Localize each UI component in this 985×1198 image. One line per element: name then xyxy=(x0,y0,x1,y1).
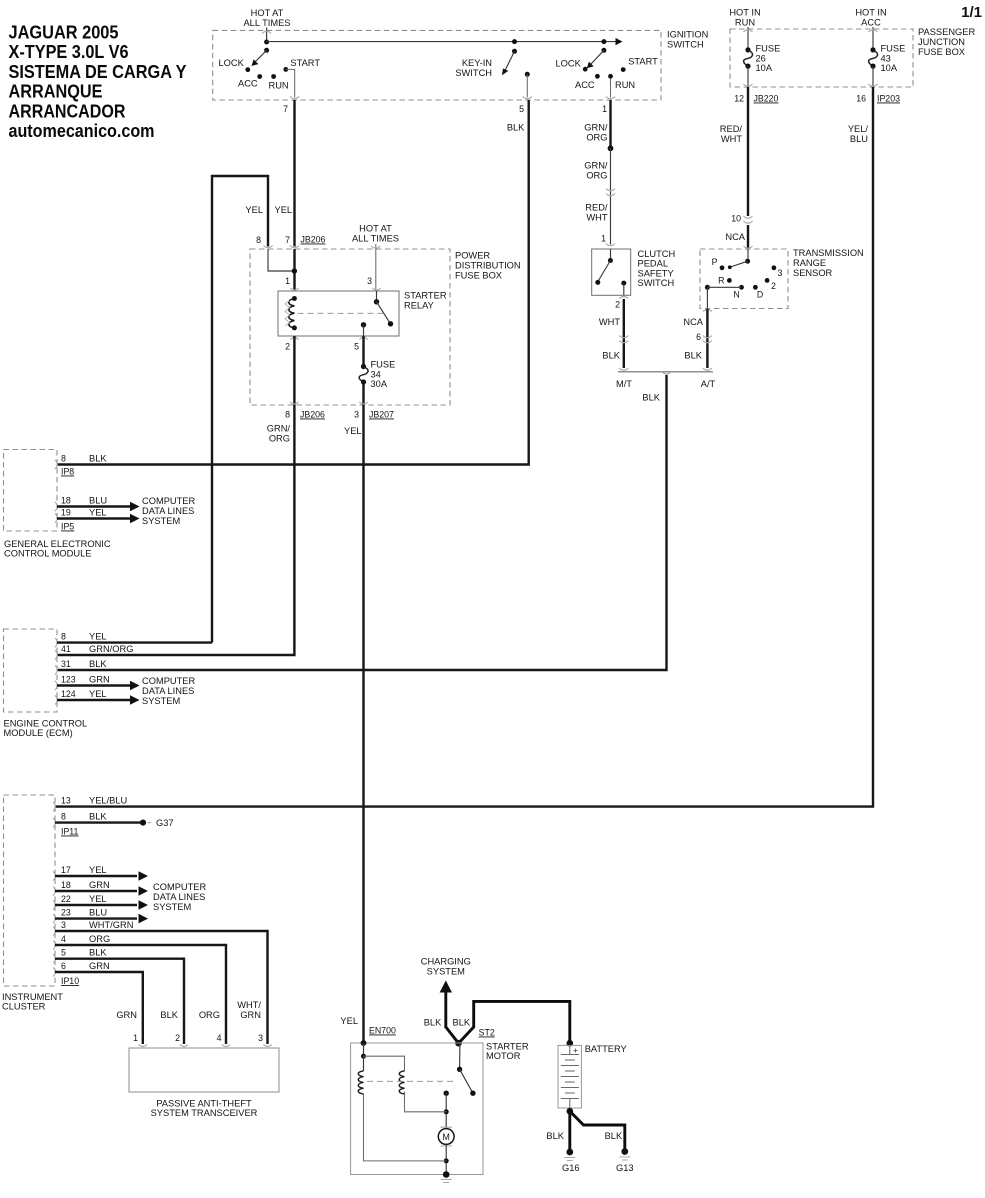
relay switch common xyxy=(374,299,379,304)
svg-text:P: P xyxy=(712,257,718,267)
svg-text:3: 3 xyxy=(354,410,359,420)
wire splice to clutch switch xyxy=(610,148,612,244)
contact N xyxy=(739,285,744,290)
svg-text:18: 18 xyxy=(61,496,71,506)
wire BLK to ground G37 xyxy=(55,821,140,823)
svg-text:IP203: IP203 xyxy=(877,94,900,104)
wire ignition internal bus xyxy=(267,41,617,43)
svg-text:ORG: ORG xyxy=(269,434,290,444)
svg-text:SISTEMA DE CARGA Y: SISTEMA DE CARGA Y xyxy=(9,61,188,82)
svg-text:1: 1 xyxy=(285,276,290,286)
key-in switch pivot on bus xyxy=(512,39,517,44)
svg-text:SWITCH: SWITCH xyxy=(455,68,492,78)
svg-text:RANGE: RANGE xyxy=(793,258,826,268)
connector arc TRS bottom xyxy=(703,310,712,312)
left rotary pivot xyxy=(264,48,269,53)
svg-text:EN700: EN700 xyxy=(369,1026,396,1036)
svg-text:31: 31 xyxy=(61,659,71,669)
svg-text:COMPUTER: COMPUTER xyxy=(153,882,206,892)
connector arcs at PDFB top pins 8 and 7 xyxy=(263,246,299,248)
svg-text:MOTOR: MOTOR xyxy=(486,1051,521,1061)
connector arc IC pin13 xyxy=(53,802,55,811)
svg-text:7: 7 xyxy=(283,104,288,114)
svg-text:GRN/: GRN/ xyxy=(584,123,608,133)
wire into TRS common xyxy=(747,249,749,261)
svg-text:BLK: BLK xyxy=(89,659,107,669)
svg-text:COMPUTER: COMPUTER xyxy=(142,676,195,686)
data line arrow pin17 xyxy=(55,875,137,877)
svg-text:ALL TIMES: ALL TIMES xyxy=(243,18,290,28)
svg-text:YEL/: YEL/ xyxy=(848,124,869,134)
motor M xyxy=(438,1129,454,1145)
node solenoid split xyxy=(361,1054,366,1059)
wire coil 2 return xyxy=(405,1092,447,1112)
starter switch output contact xyxy=(444,1091,449,1096)
svg-text:N: N xyxy=(733,290,739,300)
wire feed into fuse 26 xyxy=(747,27,749,50)
node YEL entry xyxy=(361,1040,367,1046)
contact START (left) xyxy=(283,67,288,72)
M/T A/T junction bar xyxy=(618,368,713,374)
fuse 26 xyxy=(744,44,781,74)
wire relay pin2 to JB206 bottom xyxy=(293,336,295,405)
svg-text:RED/: RED/ xyxy=(585,203,608,213)
svg-text:ALL TIMES: ALL TIMES xyxy=(352,234,399,244)
svg-text:2: 2 xyxy=(615,300,620,310)
svg-text:RELAY: RELAY xyxy=(404,301,434,311)
svg-text:BLK: BLK xyxy=(642,393,660,403)
wire contact to motor xyxy=(445,1093,447,1128)
svg-text:BLK: BLK xyxy=(602,351,620,361)
wire charging branch V left xyxy=(446,1027,459,1043)
svg-text:BLK: BLK xyxy=(160,1010,178,1020)
wire contact to pin 2 xyxy=(623,283,625,295)
clutch lever end xyxy=(595,280,600,285)
svg-text:ACC: ACC xyxy=(861,18,881,28)
svg-text:6: 6 xyxy=(696,332,701,342)
wire ST2 to starter switch xyxy=(459,1043,461,1069)
svg-text:BLK: BLK xyxy=(89,454,107,464)
svg-text:JB206: JB206 xyxy=(300,410,325,420)
wire fuse 43 to pin 16 xyxy=(872,66,874,87)
svg-text:STARTER: STARTER xyxy=(486,1042,529,1052)
svg-text:SYSTEM: SYSTEM xyxy=(142,696,180,706)
svg-text:26: 26 xyxy=(756,53,766,63)
svg-text:HOT AT: HOT AT xyxy=(359,224,392,234)
svg-text:CLUSTER: CLUSTER xyxy=(2,1002,46,1012)
svg-text:ENGINE CONTROL: ENGINE CONTROL xyxy=(4,719,88,729)
svg-text:JB206: JB206 xyxy=(301,235,326,245)
contact key-in output xyxy=(525,72,530,77)
node battery positive xyxy=(567,1040,574,1047)
wire entry to solenoid split xyxy=(363,1043,365,1056)
wire START contact to pin 7 xyxy=(286,69,295,97)
svg-text:G13: G13 xyxy=(616,1163,634,1173)
svg-text:KEY-IN: KEY-IN xyxy=(462,58,492,68)
svg-text:YEL: YEL xyxy=(89,632,107,642)
svg-text:WHT/GRN: WHT/GRN xyxy=(89,920,133,930)
connector arc ignition pin 1 xyxy=(606,97,615,99)
clutch switch pivot xyxy=(608,258,613,263)
data line arrow pin18 xyxy=(57,505,131,507)
svg-text:START: START xyxy=(290,58,320,68)
svg-text:18: 18 xyxy=(61,880,71,890)
svg-text:123: 123 xyxy=(61,675,76,685)
connector arc clutch switch pin1 xyxy=(606,244,615,246)
starter relay box xyxy=(278,291,399,336)
svg-text:BLU: BLU xyxy=(89,908,107,918)
connector arc ECM pin31 xyxy=(55,665,57,674)
wire JB206 pin8 jog to relay pin1 xyxy=(268,249,293,271)
svg-text:FUSE BOX: FUSE BOX xyxy=(455,271,502,281)
svg-text:JAGUAR 2005: JAGUAR 2005 xyxy=(9,22,119,43)
svg-text:12: 12 xyxy=(734,94,744,104)
svg-text:8: 8 xyxy=(61,454,66,464)
svg-text:8: 8 xyxy=(285,410,290,420)
connector arcs at relay pins 2,5 xyxy=(290,338,368,340)
svg-text:BLK: BLK xyxy=(424,1018,442,1028)
node coil2 return junction xyxy=(444,1109,449,1114)
wire ignition pin7 down to JB206 xyxy=(293,100,295,247)
svg-text:YEL: YEL xyxy=(275,205,293,215)
svg-text:MODULE (ECM): MODULE (ECM) xyxy=(4,728,73,738)
starter switch common xyxy=(457,1067,462,1072)
contact RUN (left) xyxy=(271,74,276,79)
svg-text:STARTER: STARTER xyxy=(404,291,447,301)
connector arcs at motor terminals xyxy=(441,1127,453,1146)
title block xyxy=(9,22,188,141)
connector arc PJB pin 12 xyxy=(743,84,752,86)
junction node pins 8+7 xyxy=(292,268,297,273)
wire WHT/BLK clutch to M/T junction xyxy=(623,299,625,368)
fuse 43 xyxy=(869,44,906,74)
battery box xyxy=(558,1045,581,1108)
contact ACC (right) xyxy=(595,74,600,79)
svg-text:X-TYPE 3.0L V6: X-TYPE 3.0L V6 xyxy=(9,41,129,62)
YEL branch wire from ECM row up-left xyxy=(212,176,268,643)
svg-text:16: 16 xyxy=(856,94,866,104)
contact D xyxy=(753,285,758,290)
wire NCA/BLK TRS to A/T junction xyxy=(706,309,708,368)
svg-text:RED/: RED/ xyxy=(720,124,743,134)
arrowhead of internal bus xyxy=(616,38,623,45)
svg-text:LOCK: LOCK xyxy=(219,58,245,68)
starter motor box xyxy=(351,1043,483,1175)
wire relay pin5 to fuse 34 xyxy=(362,336,364,367)
relay actuation dashed line xyxy=(298,312,384,314)
svg-text:13: 13 xyxy=(61,796,71,806)
contact LOCK (right) xyxy=(583,67,588,72)
wire YEL ECM pin8 row xyxy=(57,641,212,643)
svg-text:BLK: BLK xyxy=(684,351,702,361)
wire YEL JB207 down to starter motor xyxy=(362,405,364,1043)
svg-text:WHT: WHT xyxy=(599,317,620,327)
connector arcs at relay pins 1,3 xyxy=(290,288,380,290)
svg-text:IP8: IP8 xyxy=(61,467,74,477)
connector arc ECM pin8 xyxy=(55,638,57,647)
power distribution fuse box xyxy=(250,249,450,405)
svg-text:IP5: IP5 xyxy=(61,522,74,532)
svg-text:SYSTEM: SYSTEM xyxy=(427,967,465,977)
svg-text:23: 23 xyxy=(61,908,71,918)
wire contact to relay pin5 xyxy=(363,325,365,336)
svg-text:CHARGING: CHARGING xyxy=(421,957,471,967)
svg-text:WHT/: WHT/ xyxy=(237,1000,261,1010)
svg-text:DATA LINES: DATA LINES xyxy=(142,686,194,696)
svg-text:START: START xyxy=(628,57,658,67)
svg-text:RUN: RUN xyxy=(269,80,289,90)
solenoid actuation dashed line xyxy=(367,1080,455,1082)
svg-text:8: 8 xyxy=(61,632,66,642)
data line arrow pin23 xyxy=(55,917,137,919)
svg-text:GRN/: GRN/ xyxy=(267,424,291,434)
svg-text:G16: G16 xyxy=(562,1163,580,1173)
svg-text:BLK: BLK xyxy=(507,123,525,133)
clutch switch lever xyxy=(599,261,611,281)
svg-text:GRN: GRN xyxy=(89,880,110,890)
svg-text:FUSE: FUSE xyxy=(756,44,781,54)
ignition switch box xyxy=(213,30,661,100)
svg-text:YEL: YEL xyxy=(245,205,263,215)
svg-text:1: 1 xyxy=(601,234,606,244)
svg-text:PASSIVE ANTI-THEFT: PASSIVE ANTI-THEFT xyxy=(156,1099,252,1109)
wire fuse 26 to pin 12 xyxy=(747,66,749,87)
svg-text:3: 3 xyxy=(61,920,66,930)
battery internals xyxy=(561,1045,579,1108)
contact START (right) xyxy=(621,67,626,72)
svg-text:10A: 10A xyxy=(881,63,898,73)
svg-text:ACC: ACC xyxy=(238,79,258,89)
svg-text:GRN: GRN xyxy=(89,675,110,685)
ground node at starter case xyxy=(443,1171,450,1178)
wire relay pin3 to common xyxy=(376,291,378,302)
ground G37 xyxy=(140,820,146,826)
wire RUN contact to pin 1 xyxy=(610,79,612,98)
svg-text:GRN/ORG: GRN/ORG xyxy=(89,644,133,654)
connector arcs at PATS pins xyxy=(139,1045,272,1047)
svg-text:124: 124 xyxy=(61,689,76,699)
wire YEL/BLU from IP203 down and left to cluster pin13 xyxy=(55,87,873,807)
ground symbol starter xyxy=(441,1180,452,1183)
solenoid coil 2 xyxy=(399,1071,404,1094)
svg-text:WHT: WHT xyxy=(586,213,607,223)
svg-text:3: 3 xyxy=(258,1033,263,1043)
svg-text:WHT: WHT xyxy=(721,134,742,144)
wire ORG to PATS pin4 xyxy=(55,945,226,1044)
svg-text:JB207: JB207 xyxy=(369,410,394,420)
svg-text:BLU: BLU xyxy=(89,496,107,506)
wire ignition pin5 BLK down and left to GECM pin8 xyxy=(57,100,529,465)
svg-text:D: D xyxy=(757,290,763,300)
svg-text:19: 19 xyxy=(61,508,71,518)
svg-text:YEL: YEL xyxy=(89,689,107,699)
connector arc GECM pin8 xyxy=(55,460,57,469)
svg-text:ARRANQUE: ARRANQUE xyxy=(9,81,103,102)
general electronic control module box xyxy=(4,450,58,532)
inline connector on pin1 wire xyxy=(606,189,615,196)
wire BLK to PATS pin2 xyxy=(55,959,184,1044)
svg-text:YEL: YEL xyxy=(89,865,107,875)
connector arc clutch pin 2 xyxy=(619,297,628,299)
svg-text:COMPUTER: COMPUTER xyxy=(142,496,195,506)
svg-text:SWITCH: SWITCH xyxy=(667,40,704,50)
contact 2 xyxy=(765,278,770,283)
svg-text:5: 5 xyxy=(354,342,359,352)
wire ignition pin1 GRN/ORG xyxy=(609,100,611,148)
wire into coil 1 xyxy=(363,1056,365,1071)
svg-text:M/T: M/T xyxy=(616,379,632,389)
svg-text:PEDAL: PEDAL xyxy=(638,259,669,269)
svg-text:YEL/BLU: YEL/BLU xyxy=(89,796,127,806)
svg-text:ORG: ORG xyxy=(586,133,607,143)
node coil1 return junction xyxy=(444,1158,449,1163)
contact P xyxy=(720,265,725,270)
svg-text:8: 8 xyxy=(256,235,261,245)
svg-text:3: 3 xyxy=(367,276,372,286)
node ignition common xyxy=(264,40,269,45)
node battery negative xyxy=(567,1108,574,1115)
contact RUN (right) xyxy=(608,74,613,79)
right rotary pivot on bus xyxy=(601,39,606,44)
passive anti-theft system transceiver box xyxy=(129,1048,279,1092)
inline connector on TRS wire xyxy=(703,336,712,343)
svg-text:IGNITION: IGNITION xyxy=(667,30,708,40)
svg-text:JB220: JB220 xyxy=(754,94,779,104)
svg-text:YEL: YEL xyxy=(344,426,362,436)
contact ACC (left) xyxy=(257,74,262,79)
transmission range sensor box xyxy=(700,249,788,309)
svg-text:10A: 10A xyxy=(756,63,773,73)
svg-text:TRANSMISSION: TRANSMISSION xyxy=(793,248,864,258)
svg-text:3: 3 xyxy=(778,268,783,278)
svg-text:R: R xyxy=(718,276,724,286)
svg-text:4: 4 xyxy=(61,934,66,944)
node ST2 xyxy=(455,1040,462,1047)
inline connector on clutch wire xyxy=(619,336,628,343)
wire split to coil 2 xyxy=(364,1056,405,1071)
data line arrow pin124 xyxy=(57,699,131,701)
svg-text:GRN: GRN xyxy=(240,1010,261,1020)
svg-text:NCA: NCA xyxy=(683,317,703,327)
engine control module box xyxy=(4,629,58,712)
connector arc ECM pin41 xyxy=(55,650,57,659)
right rotary wiper (to LOCK) xyxy=(591,50,604,64)
svg-text:GRN/: GRN/ xyxy=(584,161,608,171)
svg-text:41: 41 xyxy=(61,644,71,654)
clutch pedal safety switch box xyxy=(592,249,631,295)
svg-text:INSTRUMENT: INSTRUMENT xyxy=(2,992,63,1002)
svg-text:2: 2 xyxy=(285,342,290,352)
svg-text:SWITCH: SWITCH xyxy=(638,278,675,288)
ground G16 xyxy=(566,1149,573,1156)
wire to charging system with arrowhead xyxy=(444,990,447,1028)
passenger junction fuse box xyxy=(730,29,913,87)
svg-text:IP10: IP10 xyxy=(61,976,79,986)
svg-text:YEL: YEL xyxy=(89,894,107,904)
svg-text:GRN: GRN xyxy=(89,961,110,971)
svg-text:RUN: RUN xyxy=(735,18,755,28)
svg-text:2: 2 xyxy=(771,281,776,291)
svg-text:YEL: YEL xyxy=(340,1016,358,1026)
wire TRS output down xyxy=(706,287,708,308)
svg-text:43: 43 xyxy=(881,53,891,63)
svg-text:7: 7 xyxy=(285,235,290,245)
svg-text:5: 5 xyxy=(519,104,524,114)
svg-text:BLK: BLK xyxy=(546,1131,564,1141)
TRS output node xyxy=(705,285,710,290)
connector arc PJB pin 16 xyxy=(868,84,877,86)
contact R xyxy=(727,278,732,283)
svg-text:BLK: BLK xyxy=(89,812,107,822)
svg-text:JUNCTION: JUNCTION xyxy=(918,37,965,47)
svg-text:ORG: ORG xyxy=(199,1010,220,1020)
svg-text:POWER: POWER xyxy=(455,251,490,261)
svg-text:BLK: BLK xyxy=(453,1018,471,1028)
svg-text:ACC: ACC xyxy=(575,80,595,90)
key-in switch wiper xyxy=(505,51,515,70)
svg-text:8: 8 xyxy=(61,812,66,822)
svg-text:17: 17 xyxy=(61,865,71,875)
wire battery negative to G13 xyxy=(570,1111,625,1148)
starter switch lever xyxy=(460,1069,473,1093)
ground G13 xyxy=(621,1148,628,1155)
svg-text:M: M xyxy=(443,1132,450,1142)
data line arrow pin22 xyxy=(55,904,137,906)
relay coil xyxy=(285,296,297,330)
svg-text:SYSTEM: SYSTEM xyxy=(142,516,180,526)
connector arcs at PDFB bottom xyxy=(290,402,368,404)
clutch output contact xyxy=(621,281,626,286)
connector arc at ignition box top xyxy=(262,31,271,33)
wire key-in contact to pin 5 xyxy=(526,74,528,97)
wire NCA into TRS xyxy=(747,225,749,249)
wire feed into fuse 43 xyxy=(872,27,874,50)
svg-text:DATA LINES: DATA LINES xyxy=(153,892,205,902)
svg-text:NCA: NCA xyxy=(725,232,745,242)
TRS wiper to P xyxy=(731,261,748,267)
wire battery negative to G16 xyxy=(568,1111,571,1149)
svg-text:HOT AT: HOT AT xyxy=(251,8,284,18)
svg-text:ORG: ORG xyxy=(89,934,110,944)
data line arrow pin123 xyxy=(57,684,131,686)
solenoid coil 1 xyxy=(358,1071,363,1094)
connector arc ignition pin 5 xyxy=(523,97,532,99)
svg-text:5: 5 xyxy=(61,948,66,958)
svg-text:G37: G37 xyxy=(156,818,174,828)
relay switch lever xyxy=(377,302,391,324)
svg-text:2: 2 xyxy=(175,1033,180,1043)
svg-text:1: 1 xyxy=(133,1033,138,1043)
svg-text:BLU: BLU xyxy=(850,134,868,144)
svg-text:CONTROL MODULE: CONTROL MODULE xyxy=(4,549,91,559)
svg-text:DISTRIBUTION: DISTRIBUTION xyxy=(455,261,521,271)
wire coil 1 return xyxy=(364,1094,447,1161)
svg-text:ST2: ST2 xyxy=(479,1028,495,1038)
svg-text:30A: 30A xyxy=(371,379,388,389)
wire GRN/ORG down then left to ECM pin41 xyxy=(57,405,294,655)
wire JB206 pin7 down to relay pin 1 xyxy=(293,249,295,291)
wire GRN to PATS pin1 xyxy=(55,972,143,1044)
svg-text:ORG: ORG xyxy=(586,171,607,181)
svg-text:10: 10 xyxy=(731,214,741,224)
TRS common node xyxy=(745,259,750,264)
inline connector 10 on RED/WHT wire xyxy=(743,216,752,223)
svg-text:DATA LINES: DATA LINES xyxy=(142,506,194,516)
svg-text:FUSE BOX: FUSE BOX xyxy=(918,47,965,57)
wire into clutch switch xyxy=(610,249,612,261)
contact 3 xyxy=(772,265,777,270)
left rotary wiper (to LOCK) xyxy=(255,50,267,62)
